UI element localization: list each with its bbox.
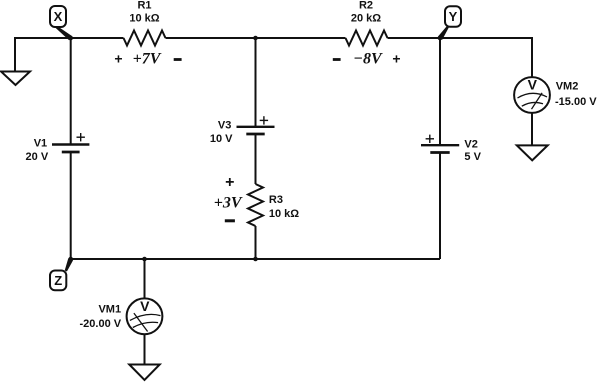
svg-text:R1: R1 xyxy=(137,0,151,12)
resistor R3 zigzag xyxy=(248,184,263,226)
polarity minus for R2 voltage xyxy=(333,58,341,61)
node Y box xyxy=(445,6,461,27)
junction dot node X xyxy=(68,36,73,41)
junction dot node Y xyxy=(438,36,443,41)
node Z box xyxy=(50,271,66,291)
svg-text:+: + xyxy=(114,51,122,67)
svg-text:+3V: +3V xyxy=(214,195,243,212)
battery V2 short plate xyxy=(430,151,449,154)
svg-text:V: V xyxy=(140,298,150,314)
node Y leader line xyxy=(438,26,449,40)
svg-text:+: + xyxy=(225,174,234,191)
svg-text:VM2: VM2 xyxy=(556,81,579,93)
svg-text:Z: Z xyxy=(54,273,62,288)
battery V1 short plate xyxy=(62,151,80,154)
svg-text:V2: V2 xyxy=(464,139,477,151)
svg-text:+7V: +7V xyxy=(133,51,162,68)
svg-text:R3: R3 xyxy=(269,194,283,206)
svg-text:5 V: 5 V xyxy=(464,151,481,163)
battery V3 short plate xyxy=(246,133,264,136)
resistor R2 zigzag xyxy=(346,31,388,46)
junction dot node Z xyxy=(68,257,73,262)
ground symbol top-left xyxy=(1,72,30,86)
voltmeter VM2 circle xyxy=(514,77,550,113)
voltmeter VM2 meter face arcs and needle xyxy=(518,93,548,109)
svg-text:Y: Y xyxy=(449,9,458,24)
wire VM2 to ground xyxy=(531,113,533,145)
node Z leader line xyxy=(65,258,73,271)
wire V3 to R3 xyxy=(255,134,257,184)
wire from R2 past node Y to VM2 drop xyxy=(388,38,533,77)
svg-text:20 V: 20 V xyxy=(26,151,49,163)
svg-text:10 kΩ: 10 kΩ xyxy=(129,13,159,25)
battery V2 long plate xyxy=(421,144,459,146)
ground symbol below VM1 xyxy=(129,365,159,381)
plus mark battery V2 xyxy=(426,135,434,143)
junction dot middle bottom xyxy=(253,257,258,262)
wire bottom horizontal Z to right branch xyxy=(71,258,440,260)
junction dot middle top node xyxy=(253,36,258,41)
wire right branch upper (node Y to V2) xyxy=(439,38,441,145)
svg-text:+: + xyxy=(392,51,400,67)
junction dot VM1 tap xyxy=(142,257,147,262)
voltmeter VM1 circle xyxy=(127,298,163,334)
svg-text:V: V xyxy=(528,77,538,93)
svg-text:VM1: VM1 xyxy=(98,304,121,316)
wire VM1 to ground xyxy=(144,334,146,364)
wire right branch lower (V2 to bottom wire) xyxy=(439,153,441,260)
svg-text:-15.00 V: -15.00 V xyxy=(555,96,597,108)
svg-text:10 kΩ: 10 kΩ xyxy=(269,208,299,220)
svg-text:X: X xyxy=(54,9,63,24)
battery V1 long plate xyxy=(52,143,89,145)
polarity minus for R3 voltage xyxy=(225,219,235,222)
plus mark battery V3 xyxy=(260,116,268,124)
wire middle branch upper (top wire to V3) xyxy=(255,38,257,127)
svg-text:V3: V3 xyxy=(218,119,231,131)
node X leader line xyxy=(55,26,72,40)
svg-text:−8V: −8V xyxy=(353,51,383,68)
resistor R1 zigzag xyxy=(124,31,166,46)
wire left branch upper (node X to V1) xyxy=(70,38,72,145)
wire left branch lower (V1 to node Z) xyxy=(70,152,72,259)
wire top-left stub from ground to node X xyxy=(15,38,124,72)
voltmeter VM1 meter face arcs and needle xyxy=(130,313,161,331)
wire R3 to bottom wire xyxy=(255,226,257,259)
svg-text:R2: R2 xyxy=(359,0,373,12)
polarity minus for R1 voltage xyxy=(174,58,182,61)
ground symbol below VM2 xyxy=(517,145,548,160)
svg-text:-20.00 V: -20.00 V xyxy=(80,318,122,330)
wire from R1 to middle node xyxy=(166,37,346,39)
wire VM1 drop from bottom wire xyxy=(144,259,146,299)
svg-text:10 V: 10 V xyxy=(210,133,233,145)
node X box xyxy=(50,6,66,27)
battery V3 long plate xyxy=(237,126,275,128)
plus mark battery V1 xyxy=(77,133,85,141)
svg-text:V1: V1 xyxy=(34,138,47,150)
svg-text:20 kΩ: 20 kΩ xyxy=(351,13,381,25)
